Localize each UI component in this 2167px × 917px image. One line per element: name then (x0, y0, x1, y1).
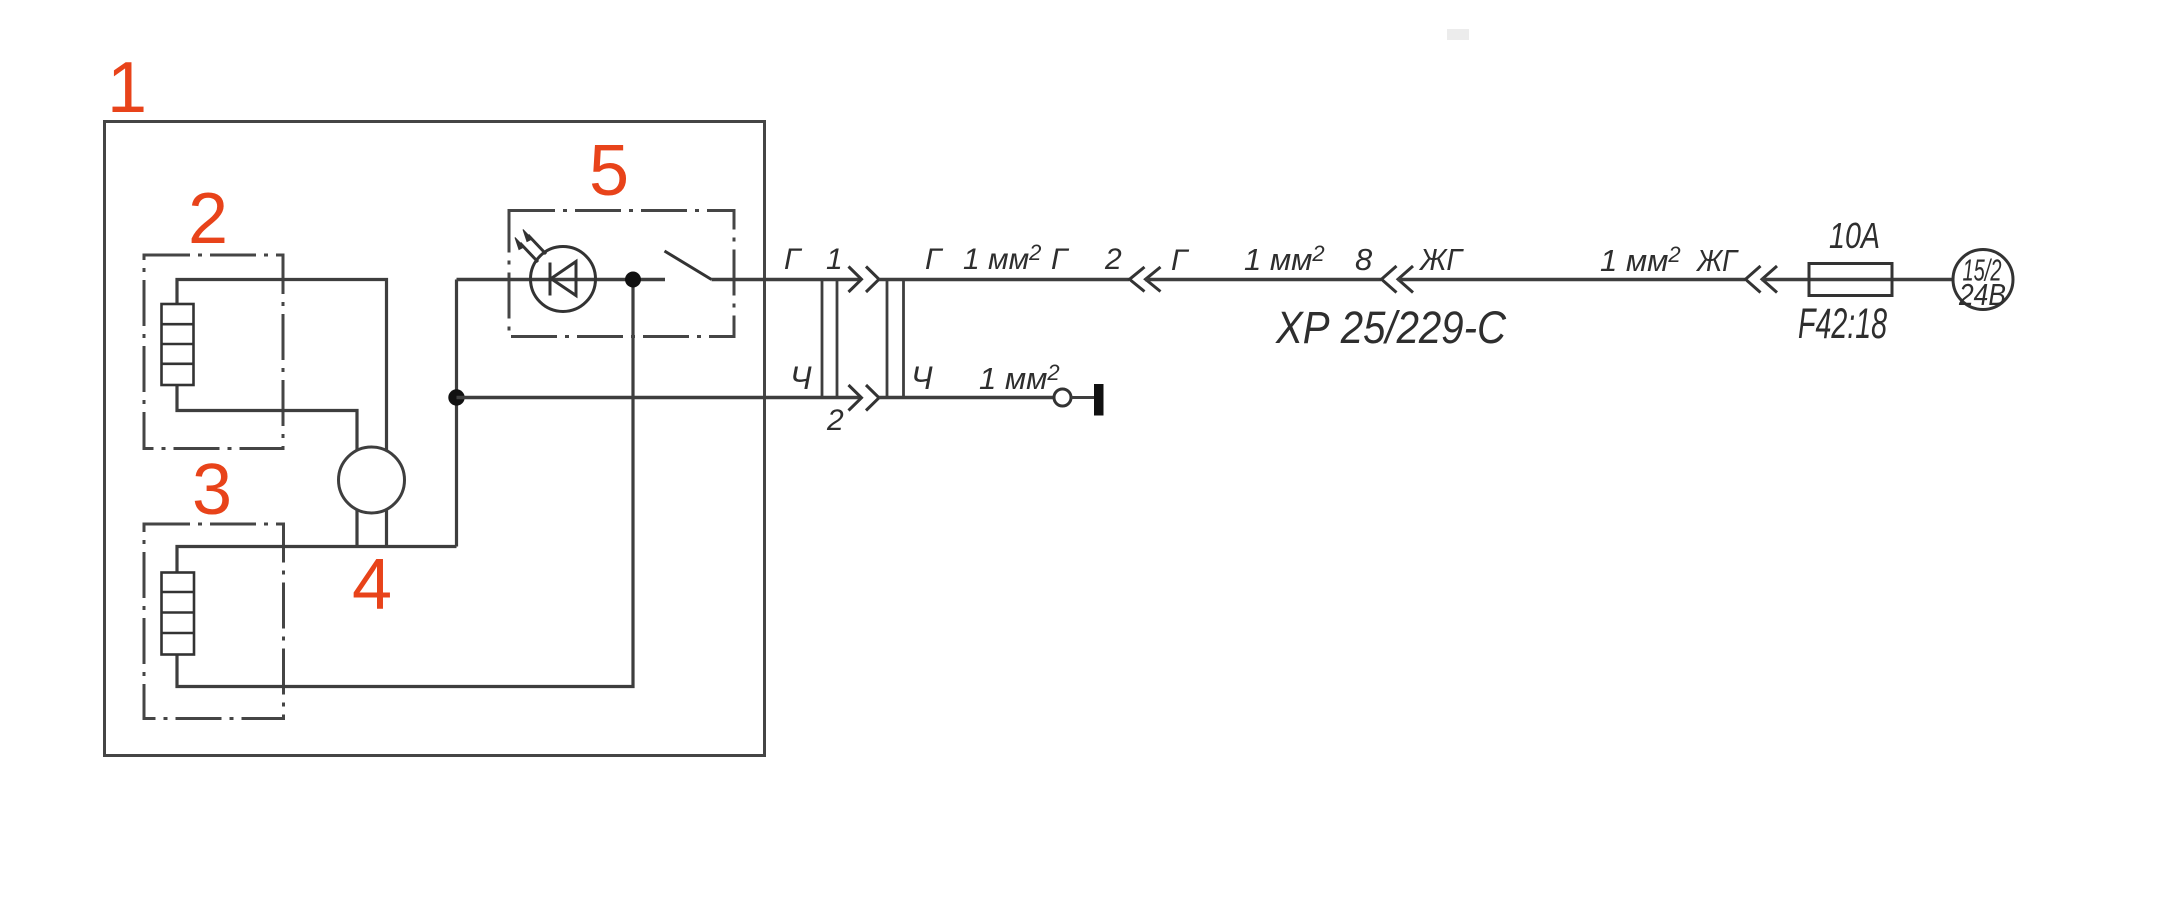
svg-text:5: 5 (589, 131, 629, 211)
fuse F42:18 body (1809, 264, 1892, 296)
svg-text:1: 1 (826, 243, 843, 276)
wire from element 3 bottom to LED node B (177, 280, 633, 687)
box 1 mirror unit outline (105, 122, 765, 756)
svg-text:ЖГ: ЖГ (1695, 243, 1739, 278)
svg-text:Г: Г (1051, 243, 1070, 276)
svg-text:Ч: Ч (790, 360, 812, 396)
heating element block 2 dash-dot border (144, 255, 283, 449)
svg-text:Г: Г (1171, 244, 1190, 277)
svg-text:4: 4 (352, 545, 392, 625)
svg-text:1: 1 (107, 48, 147, 128)
svg-text:Г: Г (925, 243, 944, 276)
junction node A (448, 389, 464, 405)
wire node A drop: vertical from LED feed to bottom bus (455, 280, 458, 547)
connector left half pin plates (822, 280, 837, 398)
ground eyelet circle (1054, 389, 1071, 406)
wire through fuse to terminal (1762, 278, 1954, 282)
connector chevrons wire 1 (849, 267, 880, 293)
connector XP 25/229-C chevrons (1382, 266, 1414, 293)
svg-text:Г: Г (784, 243, 803, 276)
connector right half pin plates (887, 280, 904, 398)
watermark smudge (1447, 29, 1469, 40)
chassis ground bar (1094, 384, 1104, 416)
svg-text:10А: 10А (1829, 215, 1880, 256)
svg-text:2: 2 (188, 179, 228, 259)
wire ZhG segment (1398, 278, 1746, 282)
wire from element 2 top to circle 4 right lead (177, 280, 387, 547)
svg-text:2: 2 (826, 404, 844, 437)
connector chevrons wire 2 (849, 385, 880, 411)
inline connector chevrons (left pointing) (1130, 267, 1161, 292)
svg-text:2: 2 (1104, 243, 1122, 276)
junction node B on LED wire (625, 272, 641, 288)
svg-text:ЖГ: ЖГ (1418, 242, 1464, 277)
heating element block 3 dash-dot border (144, 524, 284, 719)
LED indicator (515, 230, 596, 312)
svg-text:Ч: Ч (911, 360, 933, 396)
switch blade (open) (665, 251, 712, 280)
heating element 3 resistor body (162, 573, 195, 655)
supply terminal circle 15/2 24V (1953, 250, 2013, 313)
wire Г 1 mm2 segment after connector (879, 278, 1129, 282)
wire to next connector (1145, 278, 1381, 282)
svg-text:8: 8 (1355, 242, 1373, 277)
svg-text:F42:18: F42:18 (1798, 300, 1887, 348)
thermal switch 4 circle (339, 447, 405, 513)
ground stub wire (1071, 396, 1094, 399)
chevrons before fuse (left pointing) (1746, 266, 1778, 293)
wire LED feed from node A to switch contact (457, 278, 666, 282)
heating element 2 resistor body (162, 304, 194, 385)
wire from element 2 bottom to circle 4 left lead (177, 385, 357, 547)
svg-text:ХР 25/229-С: ХР 25/229-С (1275, 302, 1506, 353)
ground wire Ch from node A to connector (457, 396, 862, 400)
wire from element 3 top to junction node A (177, 547, 457, 573)
ground wire after connector (879, 396, 1054, 400)
svg-text:3: 3 (192, 450, 232, 530)
indicator block 5 dash-dot border (509, 211, 734, 337)
svg-text:24В: 24В (1958, 277, 2006, 312)
wire from switch to connector (712, 278, 862, 282)
